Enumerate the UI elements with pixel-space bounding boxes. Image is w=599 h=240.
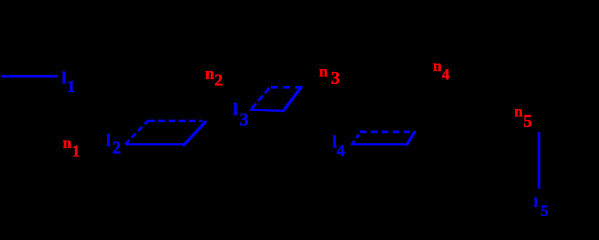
plane P2 top edge (dashed) [270, 86, 302, 89]
svg-text:5: 5 [523, 111, 532, 131]
svg-text:l: l [534, 196, 538, 211]
plane P3 left edge (dashed) [352, 132, 361, 145]
label l1 [62, 68, 76, 96]
svg-text:5: 5 [540, 203, 548, 217]
plane P3 top edge (dashed) [360, 131, 415, 134]
svg-text:n: n [63, 135, 72, 152]
plane P1 left edge (dashed) [125, 121, 148, 144]
label l4 [332, 133, 345, 160]
svg-text:3: 3 [331, 68, 340, 88]
svg-text:n: n [319, 64, 328, 81]
svg-text:l: l [106, 131, 111, 150]
plane P3 bottom edge [352, 143, 407, 145]
label l3 [233, 100, 249, 130]
svg-text:4: 4 [442, 66, 450, 83]
svg-text:1: 1 [67, 77, 75, 96]
label n5 [514, 104, 532, 131]
label n3 [319, 64, 340, 88]
plane P3 right edge [407, 132, 415, 144]
plane P1 bottom edge [126, 143, 184, 145]
line l5 [538, 133, 541, 187]
svg-text:l: l [233, 100, 238, 119]
plane P2 right edge [283, 87, 301, 111]
plane P1 right edge [184, 122, 206, 145]
svg-text:n: n [433, 58, 442, 75]
svg-text:4: 4 [337, 141, 345, 160]
label l2 [106, 131, 121, 158]
label n4 [433, 58, 450, 84]
svg-text:2: 2 [214, 71, 223, 90]
plane P2 bottom edge [251, 110, 284, 111]
svg-text:2: 2 [112, 137, 121, 157]
label n2 [205, 64, 223, 89]
svg-text:n: n [514, 104, 523, 121]
label n1 [63, 135, 80, 160]
plane P1 top edge (dashed) [148, 120, 203, 123]
label l5 [534, 196, 549, 220]
plane P2 left edge (dashed) [250, 87, 270, 111]
svg-text:l: l [62, 68, 67, 87]
svg-text:1: 1 [72, 141, 81, 160]
svg-text:3: 3 [240, 109, 249, 129]
line l1 [2, 75, 57, 77]
